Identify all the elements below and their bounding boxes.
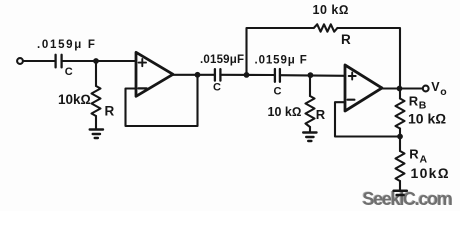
svg-text:10 kΩ: 10 kΩ xyxy=(408,111,446,127)
wire RA to ground xyxy=(399,181,401,191)
svg-text:R: R xyxy=(409,147,419,162)
U1 minus input marking xyxy=(138,87,146,89)
wire C2 to C3 xyxy=(220,74,274,76)
wire input to C xyxy=(23,60,54,62)
resistor RB 10k xyxy=(396,99,405,129)
wire n6 to RA xyxy=(399,137,401,152)
wire n4 down to R2 xyxy=(309,75,311,96)
svg-text:.0159μ F: .0159μ F xyxy=(37,39,97,51)
svg-text:R: R xyxy=(341,32,351,47)
wire n1 down to R1 xyxy=(95,61,97,86)
resistor R2 10k xyxy=(306,96,315,127)
op-amp U1 xyxy=(136,52,173,96)
svg-text:.0159μ F: .0159μ F xyxy=(255,54,308,66)
svg-text:SeekIC.com: SeekIC.com xyxy=(363,189,452,209)
node junction n2 (U1 output) xyxy=(195,72,201,78)
node junction n1 xyxy=(93,58,99,64)
wire n3 up to feedback resistor R xyxy=(247,28,314,75)
input terminal xyxy=(17,58,23,64)
svg-text:V: V xyxy=(431,80,440,94)
wire RB to node n6 xyxy=(399,129,401,137)
resistor R1 10k xyxy=(92,86,101,116)
wire R1 to ground xyxy=(95,116,97,130)
node junction n3 xyxy=(244,72,250,78)
U2 minus input marking xyxy=(348,99,355,101)
wire U2 output xyxy=(382,87,423,89)
U2 plus input marking xyxy=(349,73,356,80)
resistor R feedback 10k (top) xyxy=(314,24,338,31)
capacitor C1 xyxy=(56,55,62,68)
wire R to U2 output node xyxy=(337,28,400,99)
svg-text:C: C xyxy=(274,86,282,98)
svg-text:R: R xyxy=(409,94,419,109)
svg-text:.0159μF: .0159μF xyxy=(200,54,244,66)
op-amp U2 xyxy=(345,65,382,111)
svg-text:C: C xyxy=(213,82,221,94)
wire U1 feedback loop xyxy=(126,75,198,126)
svg-text:A: A xyxy=(420,154,428,166)
wire C1 to op-amp U1 + input xyxy=(62,60,136,62)
capacitor C3 xyxy=(275,69,280,82)
ground G2 xyxy=(303,133,316,142)
wire U1 output xyxy=(173,74,215,76)
U1 plus input marking xyxy=(139,59,146,66)
svg-text:R: R xyxy=(105,104,115,119)
ground G1 xyxy=(90,130,103,139)
ground G3 (under watermark) xyxy=(394,191,407,195)
svg-text:10 kΩ: 10 kΩ xyxy=(313,3,349,17)
svg-text:R: R xyxy=(316,107,326,122)
svg-text:10kΩ: 10kΩ xyxy=(411,165,450,181)
wire R2 to ground xyxy=(309,127,311,133)
node junction n5 (U2 output) xyxy=(397,86,403,92)
node junction n6 (RA/RB) xyxy=(397,134,403,140)
output terminal Vo xyxy=(423,86,429,92)
resistor RA 10k xyxy=(396,151,405,181)
svg-text:10kΩ: 10kΩ xyxy=(58,92,91,107)
watermark SeekIC.com xyxy=(362,189,452,209)
svg-text:o: o xyxy=(440,86,446,98)
svg-text:10 kΩ: 10 kΩ xyxy=(268,105,302,119)
capacitor C2 xyxy=(215,69,221,80)
svg-text:C: C xyxy=(65,66,73,78)
wire U2 feedback loop to RA/RB junction xyxy=(335,102,400,136)
wire C3 to U2 + input xyxy=(280,74,345,77)
node junction n4 xyxy=(308,72,314,78)
